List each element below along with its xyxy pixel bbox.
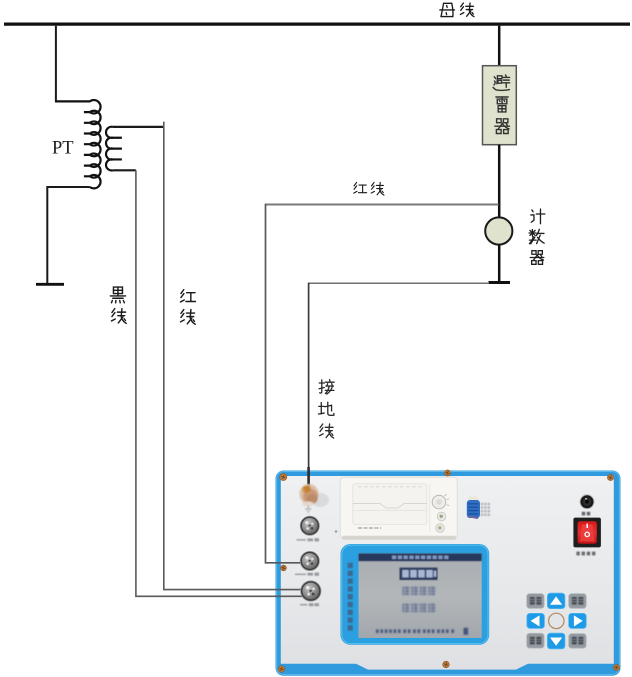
arrester to counter wire — [498, 145, 501, 218]
counter bottom bar — [489, 281, 511, 284]
screen frame — [341, 544, 490, 645]
button 打印 — [527, 633, 544, 648]
screws — [278, 470, 619, 672]
label 电源开关 — [576, 552, 595, 556]
power switch — [573, 518, 601, 548]
bus bar 母线 — [4, 23, 630, 26]
PT primary winding — [55, 100, 101, 188]
label 母线 — [440, 3, 474, 17]
button 保存 — [527, 594, 544, 609]
wire secondary bottom — [113, 169, 136, 171]
button 退出 — [569, 634, 587, 649]
counter circle — [485, 217, 512, 244]
button left — [527, 613, 545, 628]
label 计数器 — [529, 209, 545, 264]
serial connector blue — [467, 497, 490, 519]
ground bar — [36, 283, 64, 286]
center circle — [549, 613, 564, 628]
wire ground vertical — [308, 283, 310, 486]
printer — [340, 477, 457, 540]
connector 2 label — [295, 573, 319, 576]
wire red counter vertical — [266, 204, 304, 563]
connector 1 label — [297, 538, 320, 541]
connector 3 label — [300, 603, 319, 606]
PT secondary winding — [106, 127, 122, 171]
counter bottom wire — [498, 245, 501, 282]
ground mark — [305, 506, 312, 513]
label 接地线 — [319, 380, 335, 438]
wire secondary top — [113, 126, 164, 128]
label 红线 top — [354, 182, 384, 195]
label 黑线 — [110, 287, 126, 323]
wire PT primary to ground — [47, 187, 90, 284]
panel dot — [335, 530, 338, 533]
label 避雷器 — [493, 75, 509, 134]
arrester 避雷器 box — [483, 66, 517, 145]
button down — [547, 633, 565, 649]
power socket — [580, 495, 594, 509]
button up — [547, 593, 565, 608]
wire bus to PT primary — [55, 26, 57, 102]
svg-text:PT: PT — [52, 139, 74, 159]
instrument panel — [281, 476, 614, 670]
button right — [569, 613, 587, 628]
bezel char strip — [348, 563, 353, 631]
button 确定 — [569, 594, 587, 609]
connector 3 — [301, 581, 321, 601]
connector 2 — [300, 551, 319, 570]
wire red counter line — [266, 204, 499, 206]
LCD — [359, 554, 482, 639]
ground wire dark tip — [307, 467, 310, 487]
wire black vertical to connector 3 — [136, 170, 305, 596]
instrument case — [276, 471, 621, 676]
label 红线 vertical — [180, 290, 195, 325]
ground terminal brass — [300, 484, 330, 507]
arrester top wire — [498, 26, 501, 66]
label 充电 — [582, 512, 590, 516]
connector 1 — [300, 516, 319, 535]
wire red vertical to connector 3 — [164, 122, 311, 590]
wire ground line — [309, 282, 489, 284]
